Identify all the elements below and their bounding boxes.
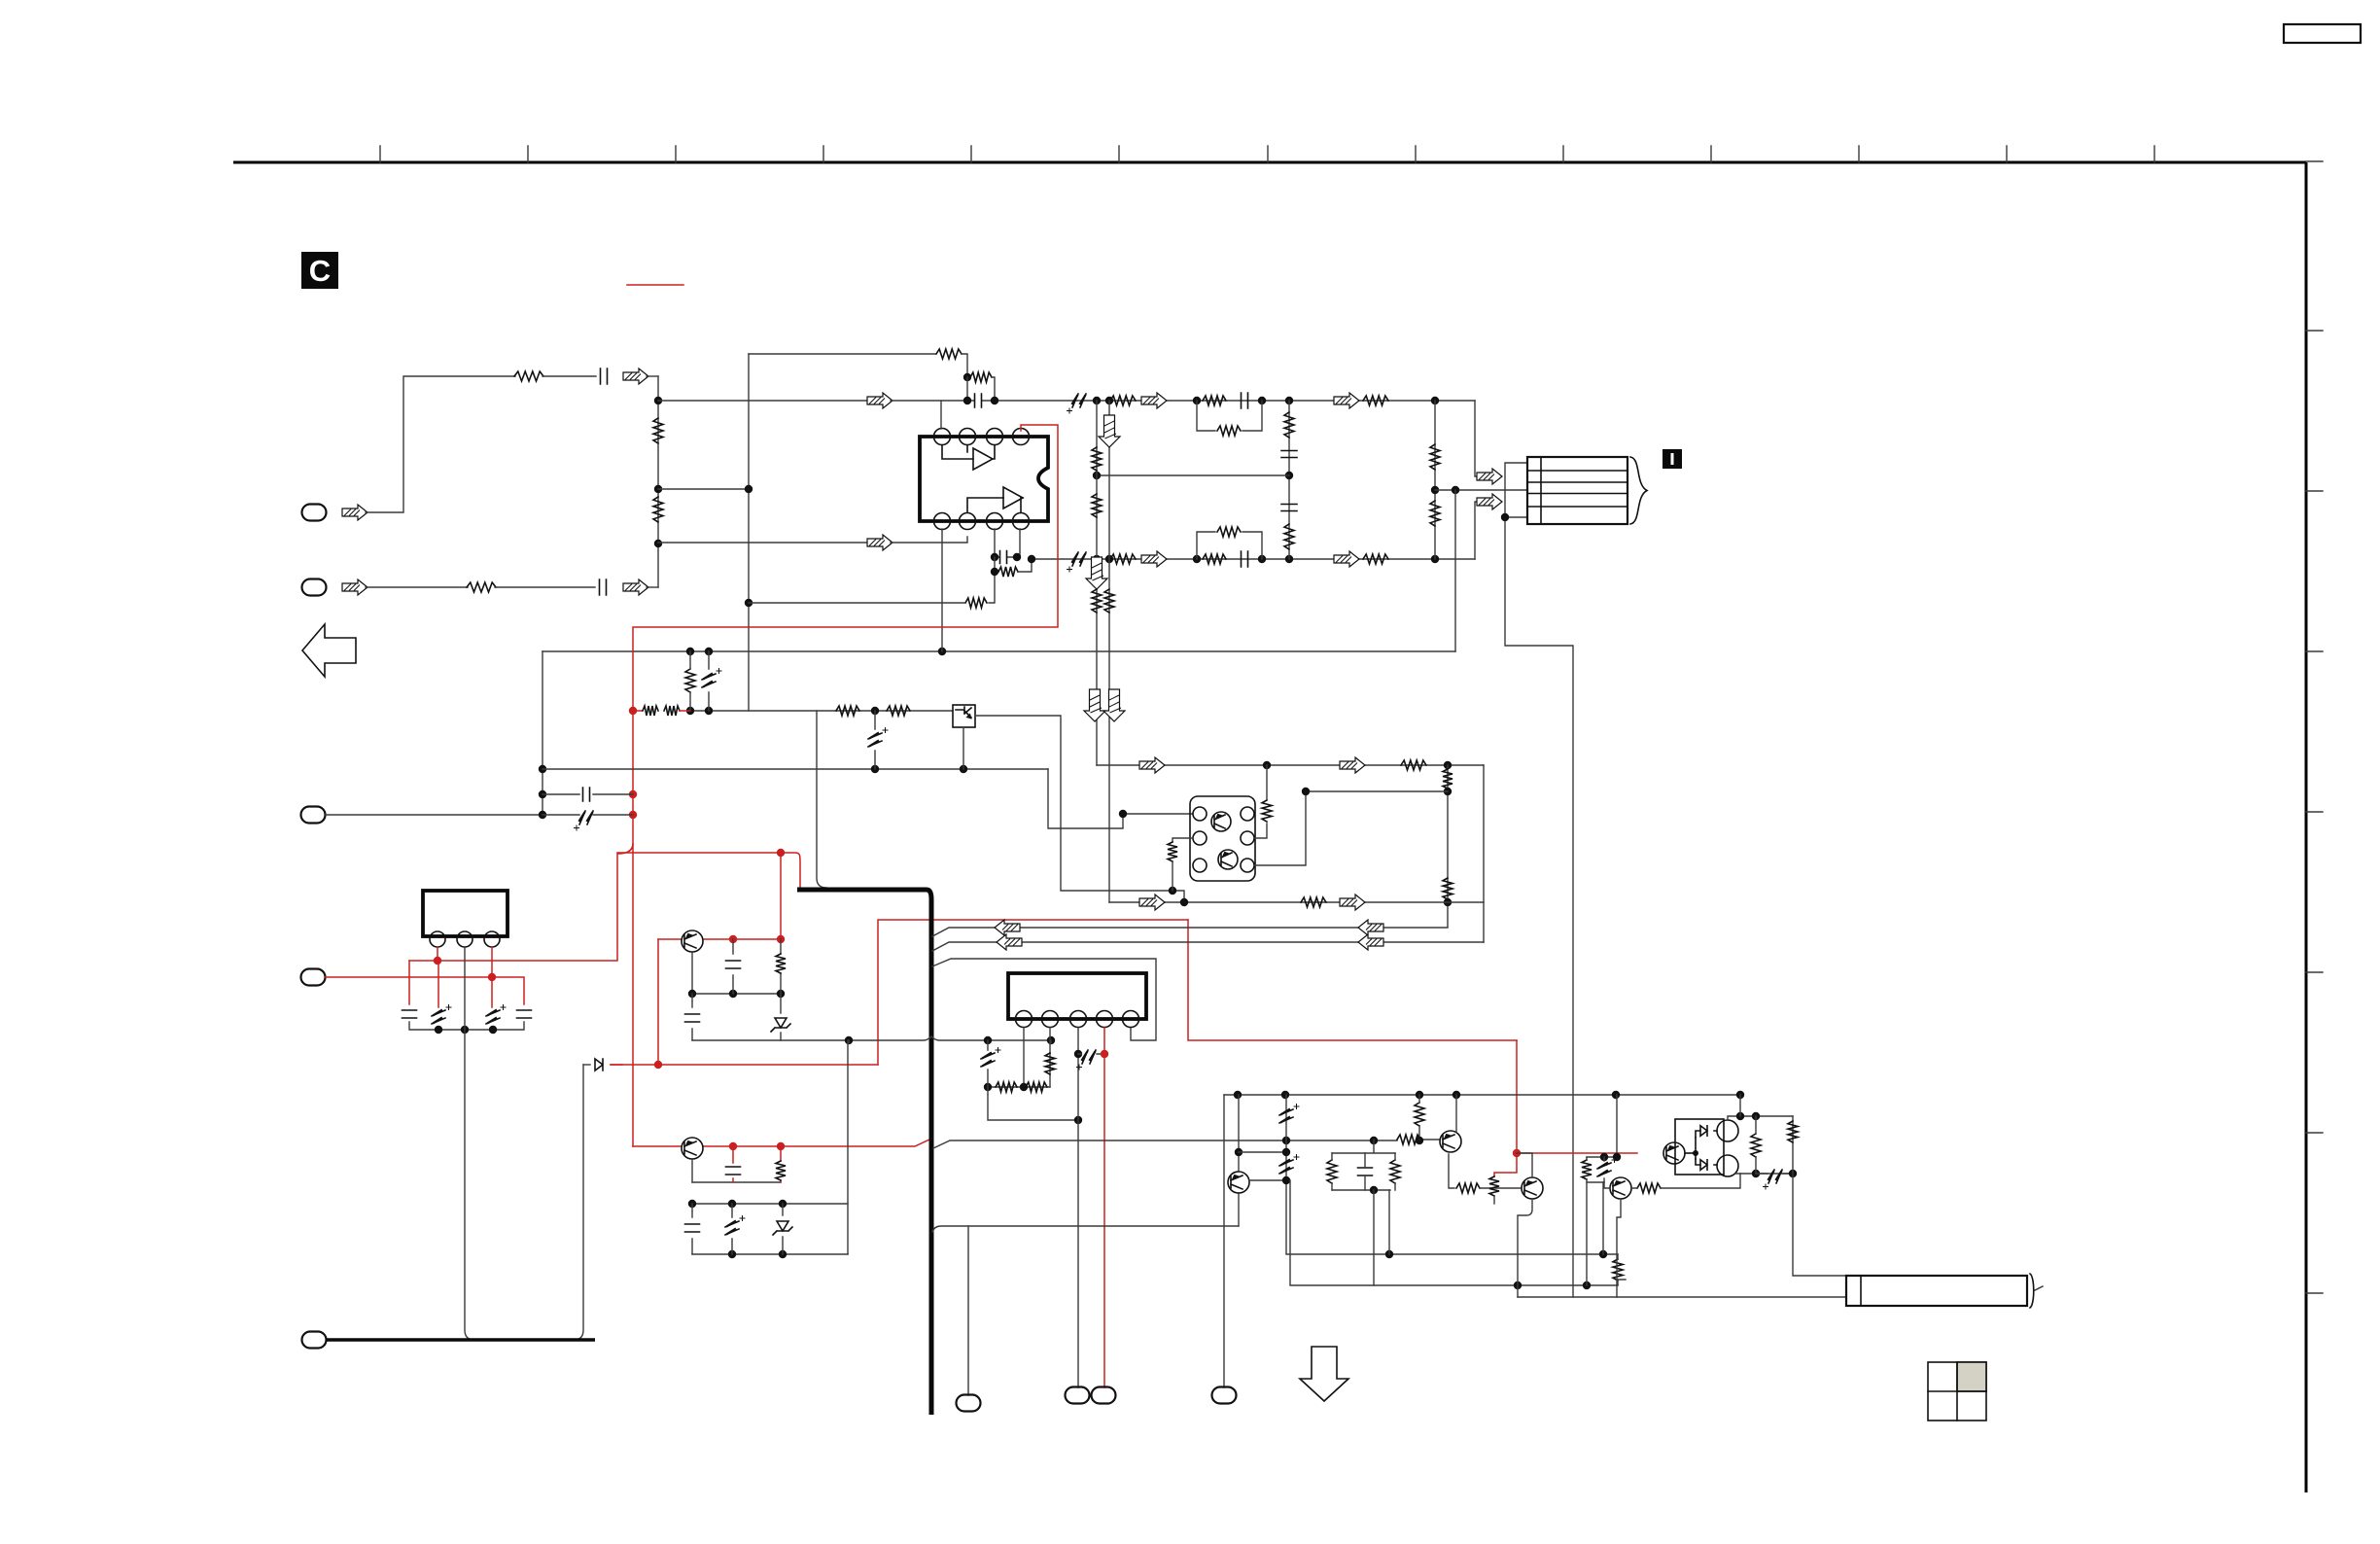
resistor bbox=[1092, 447, 1102, 471]
resistor R1c bbox=[1217, 426, 1241, 436]
resistor R-opto1 bbox=[836, 706, 859, 716]
IC1 pin3 bbox=[484, 931, 500, 947]
capacitor C-qb bbox=[732, 1146, 734, 1182]
line y731 left segment bbox=[690, 710, 953, 712]
ecap stub y838 bbox=[542, 814, 633, 816]
signal arrow y928 a bbox=[1139, 895, 1165, 910]
electrolytic EC-reg2 bbox=[486, 1005, 506, 1025]
rail y789 bbox=[1097, 764, 1484, 766]
Q10 left bottom wire bbox=[1172, 861, 1173, 891]
capacitor C-j3a bbox=[583, 788, 590, 801]
wire to IC2 frame bbox=[932, 959, 1156, 1040]
wire y814 bbox=[1306, 790, 1448, 792]
row y1073 segment bbox=[849, 1040, 1051, 1043]
heavy wire J5 bbox=[326, 1338, 595, 1342]
Q10 left wires bbox=[1172, 838, 1193, 842]
red x677 drop bbox=[657, 939, 659, 1065]
capacitor C1b bbox=[1242, 393, 1248, 408]
resistor R2c bbox=[1217, 527, 1241, 537]
dot bbox=[1752, 1170, 1760, 1177]
connector J1 bbox=[302, 505, 327, 521]
Q10 pin L bbox=[1193, 859, 1207, 872]
electrolytic EC-j3 bbox=[575, 811, 594, 830]
IC2 pin3 bbox=[1070, 1011, 1087, 1028]
U1 pin5 bbox=[934, 513, 951, 530]
wire y489 bbox=[1097, 474, 1289, 476]
dots bbox=[1736, 1112, 1744, 1120]
signal arrow A5 bbox=[1141, 551, 1167, 567]
resistor bbox=[1443, 769, 1452, 789]
bus feed x840 bbox=[817, 711, 826, 888]
rail y1126 bbox=[1224, 1094, 1740, 1096]
dot bbox=[1302, 788, 1310, 795]
opto right wire bbox=[975, 716, 1184, 902]
IC2 pin4 bbox=[1097, 1011, 1113, 1028]
U1 pin1 bbox=[934, 429, 951, 445]
resistor R-1664 bbox=[1613, 1259, 1623, 1281]
resistor R-ic2c bbox=[1045, 1053, 1055, 1074]
Q2 emitter bbox=[1617, 1199, 1626, 1297]
rail ch1 y412 bbox=[658, 400, 868, 402]
resistor bbox=[1443, 878, 1452, 899]
connector J2 bbox=[302, 579, 327, 596]
dot bbox=[1789, 1170, 1797, 1177]
resistor R-q4 bbox=[1489, 1176, 1499, 1196]
U1 pin7 bbox=[987, 513, 1003, 530]
resistor left of Q10 bbox=[1168, 842, 1177, 861]
title block box top-right bbox=[2284, 24, 2361, 43]
pin7 feed from x770 bbox=[989, 572, 995, 603]
dot bbox=[1501, 513, 1509, 521]
IC1 pin1 bbox=[430, 931, 445, 947]
dot bbox=[1444, 788, 1452, 795]
red riser x903 bbox=[878, 920, 1188, 1065]
arrow left y953 a bbox=[995, 920, 1020, 935]
vertical x1548 rows1+5 bbox=[1505, 463, 1573, 1297]
dots bbox=[1093, 555, 1101, 563]
opto bottom pin bbox=[962, 727, 964, 769]
x600 drop bbox=[574, 1065, 583, 1340]
capacitor C-reg2 bbox=[517, 1010, 532, 1018]
net drops bbox=[1374, 1190, 1389, 1285]
dot bbox=[1452, 486, 1459, 494]
connector J4 bbox=[301, 969, 326, 986]
capacitor C-qb2 bbox=[691, 1204, 693, 1254]
capacitor C-fb ch1 bbox=[975, 394, 982, 407]
dot bbox=[1444, 761, 1452, 769]
Q10 pin L bbox=[1193, 831, 1207, 845]
signal arrow y928 b bbox=[1340, 895, 1365, 910]
transistor Q5 chain bbox=[1238, 1095, 1240, 1173]
dots y791 bbox=[871, 765, 879, 773]
dot bbox=[1074, 1050, 1082, 1058]
Q10 pin R bbox=[1241, 807, 1254, 821]
red drop x1560 bbox=[1516, 1040, 1518, 1153]
capacitor C-qa2 bbox=[691, 994, 693, 1040]
bridge wire bbox=[1685, 1152, 1696, 1154]
hatch arrow down x1141 bbox=[1099, 415, 1120, 447]
resistor R-top bbox=[936, 349, 962, 359]
wire x770 vertical bbox=[748, 354, 750, 711]
bridge circle TR bbox=[1717, 1120, 1738, 1141]
resistor R-fb parallel bbox=[970, 372, 992, 382]
bridge inner bar bbox=[1695, 1138, 1697, 1159]
bridge circle BR bbox=[1717, 1155, 1738, 1176]
vertical x1141 bbox=[1108, 401, 1110, 902]
hatch arrow down small bbox=[1086, 557, 1107, 589]
capacitor C2b bbox=[1242, 551, 1248, 567]
QA collector drop bbox=[691, 952, 693, 994]
capacitor CM2 bbox=[1281, 505, 1297, 511]
dot bbox=[1285, 555, 1293, 563]
resistor R-x1806 bbox=[1751, 1134, 1761, 1157]
connector B2 bbox=[1066, 1387, 1090, 1404]
cap stub y817 bbox=[542, 793, 633, 795]
rail y1172 bbox=[933, 1140, 1440, 1148]
x1526 ladder bbox=[1483, 765, 1485, 942]
resistor bbox=[1104, 589, 1114, 613]
resistor R2d bbox=[1363, 554, 1388, 564]
dots rail1126 bbox=[1234, 1091, 1242, 1099]
red QB row y1179 bbox=[633, 1140, 929, 1146]
bridge top out bbox=[1728, 1116, 1793, 1120]
resistor R-ic2b bbox=[1026, 1082, 1047, 1092]
red dot bbox=[777, 849, 785, 857]
wire J2 row bbox=[366, 586, 468, 588]
resistor R1b bbox=[1203, 396, 1226, 405]
rail y953 bbox=[932, 928, 1448, 936]
electrolytic EC1 on rail bbox=[1067, 394, 1087, 413]
wire to x677 bbox=[647, 586, 658, 588]
right border tick marks bbox=[2306, 161, 2323, 1293]
signal arrow ch1 bbox=[867, 393, 892, 408]
red to bridge resistor bbox=[1517, 1152, 1637, 1154]
red jog x1222 bbox=[1188, 920, 1517, 1040]
red x803 drop to QA bbox=[780, 853, 782, 939]
dots bbox=[688, 990, 696, 998]
Q10 transistor b bbox=[1218, 850, 1238, 869]
fuse F1 body bbox=[1846, 1276, 2027, 1306]
page border top rule bbox=[233, 161, 2306, 164]
IC2 pin3 long drop bbox=[1077, 1028, 1079, 1387]
signal arrow in1 bbox=[623, 368, 648, 384]
transistor Q5 bbox=[1228, 1172, 1249, 1193]
resistor R2a bbox=[1110, 554, 1136, 564]
IC1 pin2 ground drop bbox=[465, 947, 474, 1340]
dots y1070 bbox=[845, 1036, 853, 1044]
transistor QB bbox=[682, 1138, 703, 1159]
Q10 bottom right wire bbox=[1254, 791, 1306, 865]
page grid marker bbox=[1928, 1362, 1986, 1421]
vertical x1497 to rail670 bbox=[1454, 490, 1456, 651]
ecap y1207 bbox=[1764, 1170, 1783, 1189]
x710 x729 stubs bbox=[690, 651, 709, 711]
cap RC-b bbox=[1358, 1168, 1373, 1176]
junction dot bbox=[963, 373, 971, 381]
IC2 pin2 bbox=[1042, 1011, 1059, 1028]
U1 pin8 bbox=[1013, 513, 1030, 530]
junction dots x770 bbox=[745, 485, 752, 493]
transistor QA bbox=[682, 930, 703, 952]
Q10 pin R bbox=[1241, 859, 1254, 872]
resistor RA2 vertical bbox=[653, 497, 663, 522]
top border tick marks bbox=[380, 146, 2154, 162]
bottom long wire to battery bbox=[1518, 1296, 1846, 1298]
parallel resistor loop ch1 bbox=[1197, 401, 1262, 431]
page-link arrow down bbox=[1300, 1347, 1348, 1401]
Q10 right wires bbox=[1254, 765, 1267, 838]
corner x1078 to qpack feed bbox=[1048, 769, 1192, 828]
Q3 collector bbox=[1449, 1154, 1454, 1188]
U1 pin4 bbox=[1013, 429, 1030, 445]
dot bbox=[1444, 898, 1452, 906]
U1 pin7 cap network bbox=[995, 529, 1020, 557]
signal arrow y789 a bbox=[1139, 757, 1165, 773]
dot bbox=[1093, 472, 1101, 479]
regulator IC1 outline bbox=[423, 891, 507, 936]
red dots QA bbox=[729, 935, 737, 943]
bridge box bbox=[1675, 1119, 1724, 1175]
ecap pair b bbox=[1597, 1158, 1617, 1177]
Q2 collector resistor bbox=[1637, 1183, 1661, 1193]
capacitor C-in1 bbox=[601, 368, 608, 384]
resistor R-928 bbox=[1301, 897, 1326, 907]
dot bbox=[1285, 397, 1293, 404]
vertical x872 bbox=[847, 1040, 849, 1254]
wire J1 to top row bbox=[366, 376, 515, 512]
ecap x1016 bbox=[987, 1040, 989, 1087]
vertical x558 bbox=[542, 651, 543, 815]
resistor R2b bbox=[1203, 554, 1226, 564]
red cap drops bbox=[409, 961, 492, 1007]
page-link arrow left bbox=[302, 624, 356, 677]
connector B4 bbox=[1212, 1387, 1237, 1404]
Q10 pin R bbox=[1241, 831, 1254, 845]
junction dots x677 bbox=[654, 397, 662, 404]
dots bbox=[728, 1250, 736, 1258]
dot bbox=[1193, 397, 1201, 404]
resistor R1a bbox=[1110, 396, 1136, 405]
rail ch2 y575 bbox=[1032, 558, 1475, 560]
RC net bbox=[1332, 1140, 1395, 1190]
corner down to connector row2 bbox=[1475, 401, 1477, 476]
red row J4 bbox=[325, 977, 524, 1004]
wire bbox=[495, 586, 595, 588]
red dot bbox=[654, 1061, 662, 1069]
dot bbox=[1028, 555, 1035, 563]
red wire y877 bbox=[617, 852, 781, 854]
red wire into opto LED bbox=[1664, 1152, 1671, 1154]
power bus thick bbox=[797, 890, 931, 1415]
signal arrow A4 bbox=[1334, 393, 1359, 408]
x1489 ladder bbox=[1447, 765, 1449, 927]
red dots QB bbox=[729, 1142, 737, 1150]
transistor Q2 bbox=[1610, 1177, 1631, 1199]
wire row3 to connector bbox=[1435, 489, 1527, 491]
resistor R-x1844 bbox=[1788, 1121, 1798, 1142]
power IC2 outline bbox=[1008, 973, 1146, 1019]
dot bbox=[1119, 810, 1127, 818]
bridge bottom out bbox=[1735, 1173, 1793, 1175]
red net from U1 pin4 bbox=[633, 425, 1058, 1146]
connector B3 bbox=[1092, 1387, 1116, 1404]
red dot bbox=[1101, 1050, 1108, 1058]
fuse bracket bbox=[2030, 1274, 2034, 1308]
resistor R-in2 bbox=[467, 582, 496, 592]
capacitor C-in2 bbox=[600, 579, 607, 595]
QB emitter drop bbox=[691, 1159, 693, 1182]
IC1 pin2 bbox=[457, 931, 472, 947]
junction dots rail1 bbox=[963, 397, 971, 404]
arrow left y969 b bbox=[1358, 934, 1383, 950]
signal arrow J2 bbox=[342, 579, 367, 595]
ecap x1323 upper bbox=[1279, 1105, 1299, 1124]
resistor R-q3top bbox=[1415, 1103, 1424, 1126]
x1663 gear bbox=[1587, 1095, 1617, 1182]
dot bbox=[1263, 761, 1271, 769]
electrolytic EC2 on rail bbox=[1067, 552, 1087, 572]
dots x558 bbox=[539, 765, 546, 773]
ecap x900 bbox=[874, 711, 876, 769]
x1844 drop bbox=[1793, 1116, 1846, 1276]
red stub pin3 bbox=[491, 947, 493, 977]
arrow left y953 b bbox=[1358, 920, 1383, 935]
red resistors y731 bbox=[633, 710, 642, 712]
corner up to connector row4 bbox=[1475, 502, 1477, 559]
transistor Q4 bbox=[1522, 1177, 1543, 1199]
resistor pair a bbox=[1582, 1160, 1592, 1179]
red reference dash bbox=[627, 284, 683, 286]
page border right rule bbox=[2305, 162, 2308, 1492]
divider x1326 bbox=[1288, 401, 1290, 559]
wire top feed y364 bbox=[749, 353, 935, 355]
resistor RM1 bbox=[1284, 412, 1294, 438]
hatch arrow down pair L bbox=[1084, 689, 1105, 721]
dot bbox=[1180, 898, 1188, 906]
x1790 riser bbox=[1739, 1095, 1741, 1116]
dots tie bbox=[435, 1026, 442, 1034]
parallel resistor loop ch2 bbox=[1197, 532, 1262, 559]
resistor RC-a bbox=[1327, 1160, 1337, 1183]
resistor R-q3base bbox=[1397, 1135, 1420, 1144]
dots bbox=[688, 1200, 696, 1208]
Q4 emitter down bbox=[1518, 1199, 1532, 1297]
Q3 collector to rail bbox=[1455, 1095, 1457, 1132]
wire pin1 stub bbox=[940, 401, 942, 429]
dots y731 bbox=[686, 707, 694, 715]
long rail y670 bbox=[542, 650, 1455, 652]
signal arrow A3 bbox=[1141, 393, 1167, 408]
diode D-qb bbox=[583, 1064, 590, 1066]
dual transistor Q10 package bbox=[1190, 796, 1255, 881]
signal arrow into CN row2 bbox=[1477, 469, 1502, 484]
electrolytic x729 bbox=[702, 669, 721, 688]
electrolytic EC-qb bbox=[731, 1204, 733, 1254]
signal arrow y789 b bbox=[1340, 757, 1365, 773]
rail y928 bbox=[1109, 901, 1484, 903]
electrolytic EC-ic2 bbox=[1078, 1053, 1104, 1055]
red dots on x651 bbox=[629, 707, 637, 715]
corner to J-B4 bbox=[1223, 1095, 1225, 1387]
rail y1261 bbox=[932, 1226, 1239, 1232]
section label C bbox=[301, 252, 338, 289]
wire pin2 drop bbox=[966, 377, 968, 401]
dot bbox=[1431, 397, 1439, 404]
dot bbox=[1285, 472, 1293, 479]
U1 opamp2 triangle bbox=[1003, 487, 1023, 509]
IC2 pin2 drop bbox=[1049, 1028, 1051, 1087]
diode D-br1 bbox=[1700, 1126, 1707, 1137]
op-amp U1 outline bbox=[920, 437, 1048, 521]
dot bbox=[1193, 555, 1201, 563]
dot bbox=[1258, 555, 1266, 563]
dot bbox=[871, 707, 879, 715]
capacitor C-qa bbox=[732, 939, 734, 994]
ecap x1323 lower bbox=[1279, 1155, 1299, 1175]
svg-text:C: C bbox=[309, 254, 331, 288]
hatch arrow down pair R bbox=[1103, 689, 1125, 721]
capacitor C-reg1 bbox=[402, 1010, 417, 1018]
red QA row y966 bbox=[658, 938, 781, 940]
connector CN-I body bbox=[1527, 457, 1627, 524]
wire bottom tap y558 to pin6 rail bbox=[658, 542, 868, 544]
red IC2 pin4 drop bbox=[1103, 1028, 1105, 1387]
x1323 column bbox=[1286, 1095, 1618, 1254]
resistor RC-c bbox=[1390, 1160, 1400, 1183]
dot bbox=[1431, 486, 1439, 494]
connector J3 bbox=[301, 807, 326, 824]
dot bbox=[1258, 397, 1266, 404]
IC2 pin1 drop bbox=[1023, 1028, 1025, 1087]
dots y1290 bbox=[1385, 1250, 1393, 1258]
resistor bbox=[1092, 494, 1102, 517]
zener D-qa bbox=[780, 994, 782, 1040]
wire bbox=[1756, 1173, 1793, 1175]
Q5 ecap wires bbox=[1239, 1152, 1286, 1180]
signal arrow into CN row4 bbox=[1477, 494, 1502, 509]
IC2 pin1 bbox=[1016, 1011, 1032, 1028]
x1327 to rail1322 bbox=[1290, 1180, 1618, 1285]
U1 pin3 bbox=[987, 429, 1003, 445]
wire bbox=[992, 377, 995, 401]
wire to Q4 bbox=[1480, 1187, 1522, 1189]
resistor RA1 vertical bbox=[653, 418, 663, 443]
row y1022 bbox=[692, 993, 781, 995]
resistor RM2 bbox=[1284, 524, 1294, 549]
wire bbox=[542, 375, 596, 377]
dots y1172 bbox=[1282, 1137, 1290, 1144]
signal arrow ch2 bbox=[867, 535, 892, 550]
rail ch1 cont bbox=[891, 400, 1475, 402]
Q4 collector up bbox=[1517, 1153, 1532, 1177]
resistor R-789 bbox=[1401, 760, 1426, 770]
resistor R1d bbox=[1363, 396, 1388, 405]
resistor bbox=[1092, 589, 1102, 613]
wire mid tap y503 bbox=[658, 488, 749, 490]
resistor RL1 bbox=[1430, 444, 1440, 470]
wire corner to y388 bbox=[962, 354, 967, 377]
Q10 transistor a bbox=[1211, 812, 1231, 831]
wire to node A bbox=[647, 375, 658, 377]
dot bbox=[1431, 555, 1439, 563]
resistor right of Q10 bbox=[1262, 800, 1272, 822]
red dot Q4 node bbox=[1513, 1149, 1521, 1157]
dots bbox=[984, 1083, 992, 1091]
row y1070 bbox=[692, 1036, 1051, 1040]
resistor R-ic2a bbox=[996, 1082, 1017, 1092]
row y1118 bbox=[988, 1086, 1050, 1088]
resistor RL2 bbox=[1430, 501, 1440, 526]
